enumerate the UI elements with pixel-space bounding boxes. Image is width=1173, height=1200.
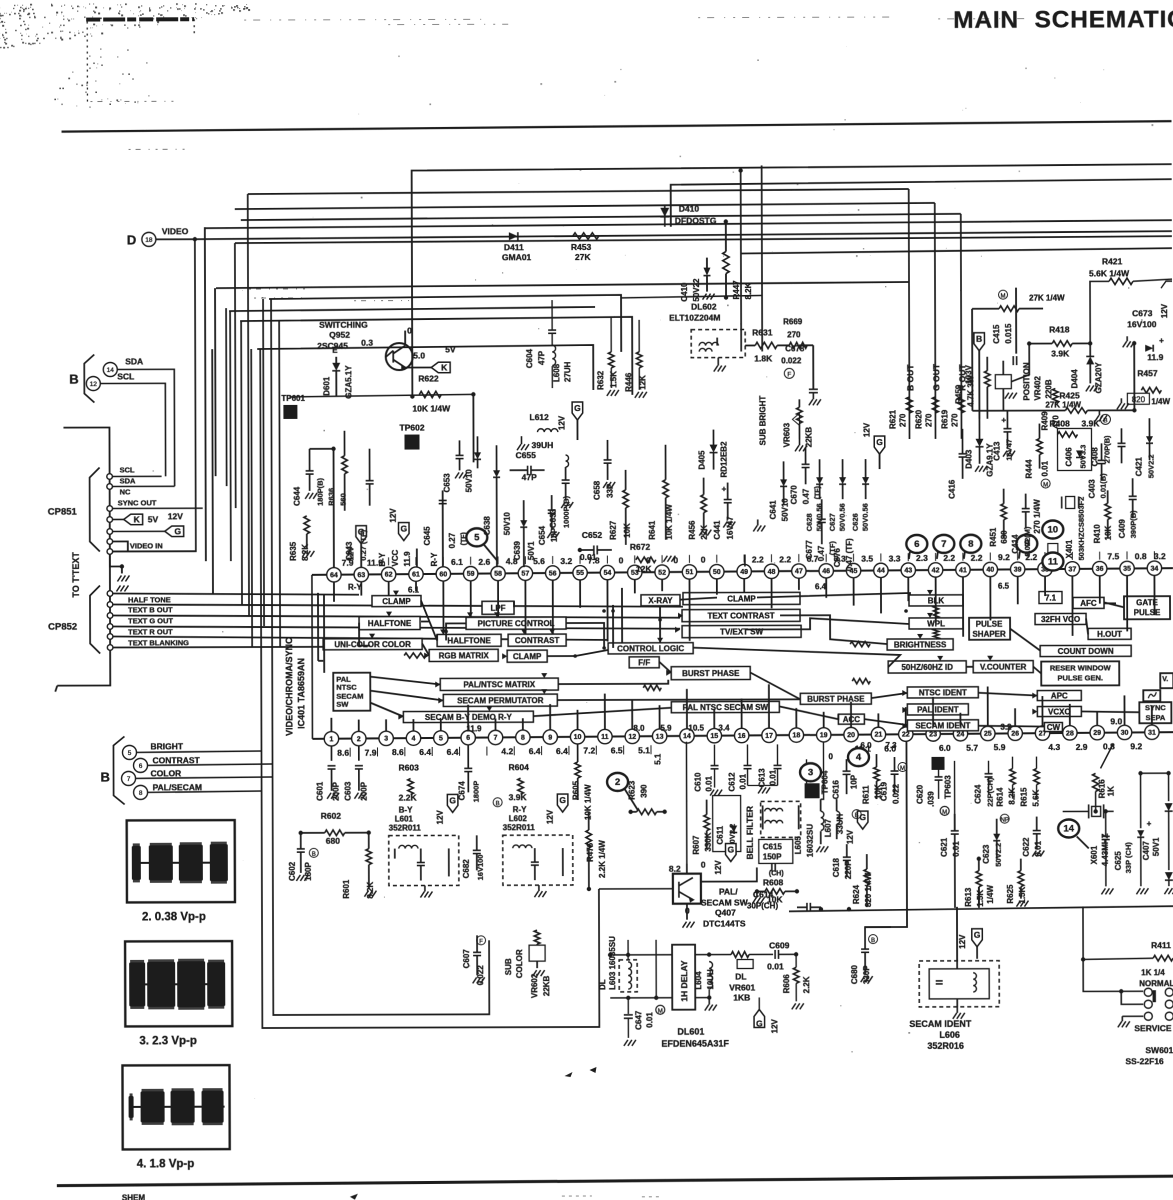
block SECAM B-Y DEMO R-Y [403,711,533,722]
pin 38 IC401 top [1038,562,1052,576]
svg-text:5.6K: 5.6K [1032,789,1041,806]
svg-text:8.2K: 8.2K [744,282,753,299]
block CONTROL LOGIC [608,643,693,654]
wire x1082 down [865,907,907,927]
svg-text:CLAMP: CLAMP [382,597,411,606]
svg-text:10UH: 10UH [706,969,715,990]
svg-text:22KB: 22KB [542,975,551,996]
svg-text:18: 18 [145,237,153,244]
svg-text:2.2K: 2.2K [399,793,418,803]
svg-text:C680: C680 [850,964,859,984]
flag 12V G mid [857,811,868,829]
capacitor C615 150P box [759,839,793,863]
svg-text:9.0: 9.0 [1110,716,1122,726]
svg-text:5.1: 5.1 [638,745,650,755]
svg-text:R622: R622 [418,373,439,383]
wire left vertical x280 [279,321,280,647]
svg-text:8.0: 8.0 [633,724,645,733]
svg-text:R625: R625 [1006,884,1015,904]
wire SCL [100,383,165,476]
svg-text:34: 34 [1150,566,1158,573]
svg-text:2.6: 2.6 [478,557,490,567]
svg-text:C407: C407 [1142,841,1151,861]
svg-text:2: 2 [615,777,620,788]
block AFC check [1104,602,1116,604]
pin CP852 HALF TONE [107,591,113,597]
capacitor C407 50V1 [1140,773,1142,828]
flag 12V G x578 [572,402,583,420]
svg-text:GZA5.1Y: GZA5.1Y [344,365,353,399]
resistor R631 1.8K [755,342,777,348]
svg-text:C638: C638 [483,516,492,536]
oscillogram 2 0.38 Vp-p [127,820,235,902]
pin CP852 TEXT B OUT [107,602,113,608]
svg-text:C644: C644 [293,486,302,506]
svg-text:19: 19 [820,732,828,739]
svg-text:R623: R623 [628,780,637,800]
svg-text:7: 7 [494,735,498,742]
svg-text:G: G [974,930,981,940]
pin 55 IC401 top [573,566,587,580]
svg-text:SECAM IDENT: SECAM IDENT [915,721,970,730]
svg-text:VR602: VR602 [530,973,539,998]
svg-text:R453: R453 [571,242,592,252]
svg-text:+: + [1001,416,1006,425]
wire bus y206 to G OUT corner [235,203,935,209]
pin 18 IC401 bottom [789,728,803,742]
svg-text:R411: R411 [1151,940,1171,950]
svg-text:C601: C601 [316,781,325,801]
svg-text:50V1: 50V1 [527,541,536,560]
block V.AM cut off at edge [1160,673,1173,688]
svg-text:R604: R604 [509,762,530,772]
svg-text:12V: 12V [436,810,445,825]
svg-text:TO T'TEXT: TO T'TEXT [71,552,81,598]
block 32FH VCO [1035,613,1086,624]
svg-text:5: 5 [128,750,132,757]
svg-text:C607: C607 [462,949,471,969]
wire TP604 stub [806,759,808,783]
svg-text:15: 15 [710,733,718,740]
svg-text:4.2: 4.2 [501,746,513,756]
svg-text:4.7K 3W: 4.7K 3W [966,375,975,407]
svg-text:52: 52 [658,570,666,577]
svg-text:6.1: 6.1 [408,586,420,595]
svg-text:L606: L606 [939,1030,960,1040]
svg-text:C645: C645 [423,526,432,546]
svg-text:NC: NC [120,487,131,496]
svg-text:DFDOSTG: DFDOSTG [675,216,717,226]
wire bus y310 [229,307,595,311]
flag B 103V [974,333,985,351]
svg-text:10K 1/4W: 10K 1/4W [665,504,674,540]
svg-text:SDA: SDA [120,476,136,485]
svg-text:13: 13 [656,734,664,741]
block V.COUNTER [973,661,1033,673]
svg-text:37: 37 [1068,566,1076,573]
svg-text:503KHZCS8503F2: 503KHZCS8503F2 [1077,497,1086,561]
svg-text:L605: L605 [794,836,803,855]
pin 30 IC401 bottom [1117,725,1131,739]
svg-text:352R016: 352R016 [927,1041,964,1051]
flag 12V G x880 [874,436,885,454]
svg-text:5.1: 5.1 [653,753,662,765]
svg-text:SCL: SCL [117,371,134,381]
svg-text:VCXO: VCXO [1048,707,1071,716]
pin 25 IC401 bottom [981,726,995,740]
svg-text:12V: 12V [557,415,566,430]
svg-text:2.2K: 2.2K [802,976,811,993]
svg-text:6.4: 6.4 [529,746,541,756]
svg-text:C641: C641 [769,500,778,520]
svg-text:SERVICE: SERVICE [1134,1023,1172,1033]
svg-text:270: 270 [950,413,959,427]
capacitor C601 200P [330,746,332,761]
svg-text:50V2.2: 50V2.2 [994,843,1003,867]
internal resistor r4 vertical [933,629,938,639]
svg-text:63: 63 [357,572,365,579]
wire vertical x742 down to DL602 [740,171,743,352]
svg-text:HALFTONE: HALFTONE [447,636,491,645]
pin CP851 spare [107,539,113,545]
svg-text:R672: R672 [630,542,651,552]
svg-text:0.01: 0.01 [705,775,714,791]
internal wire pin64 drop [323,595,325,673]
svg-text:R608: R608 [763,877,784,887]
callout 10 [1042,521,1063,539]
svg-text:2.9: 2.9 [1076,742,1088,752]
svg-text:C406: C406 [1065,447,1074,467]
internal wire count down [1010,629,1040,651]
svg-text:C620: C620 [916,784,925,804]
pin CP852 TEXT BLANKING [107,634,113,640]
svg-text:C610: C610 [694,772,703,792]
svg-text:R451: R451 [989,527,998,547]
svg-text:1/4W: 1/4W [986,885,995,904]
svg-text:2. 0.38 Vp-p: 2. 0.38 Vp-p [142,911,206,923]
svg-text:27K: 27K [575,252,591,262]
pin 49 IC401 top [737,564,751,578]
pin 56 IC401 top [545,566,559,580]
svg-text:0.47 (TF): 0.47 (TF) [845,538,854,571]
svg-text:APC: APC [1051,691,1068,700]
svg-text:0.01: 0.01 [767,961,784,971]
svg-text:680: 680 [1000,530,1009,544]
svg-text:C627: C627 [828,513,837,531]
svg-text:B: B [496,801,500,807]
svg-text:R631: R631 [752,327,773,337]
svg-text:6: 6 [914,539,919,550]
wire pin14 to Q407 [685,742,687,864]
svg-text:R444: R444 [1025,459,1034,479]
svg-text:10P: 10P [550,527,559,542]
pin 7 IC401 bottom [488,730,502,744]
svg-text:5.9: 5.9 [660,724,672,733]
internal resistor y688 [852,679,870,684]
pin 8 IC401 bottom [516,730,530,744]
svg-text:12V: 12V [862,422,871,437]
svg-text:1000P(B): 1000P(B) [562,495,571,528]
svg-text:51: 51 [686,569,694,576]
svg-text:27K 1/4W: 27K 1/4W [1029,293,1065,302]
svg-text:C416: C416 [948,479,957,499]
oscillogram 3 2.3 Vp-p [125,941,232,1026]
callout 9 pin39 [1016,535,1037,553]
ground shared C612 C613 [748,784,778,786]
svg-text:CONTRAST: CONTRAST [152,755,200,765]
svg-text:R636: R636 [327,488,336,506]
wire vr402 feed [1011,344,1029,382]
svg-text:CLAMP: CLAMP [513,652,542,661]
svg-text:56: 56 [549,570,557,577]
svg-text:12V: 12V [846,829,855,844]
flag 5V K [405,366,431,368]
svg-text:G: G [876,437,883,447]
pin CP852 last [107,645,113,651]
svg-text:B-Y: B-Y [378,552,387,566]
svg-text:C676: C676 [833,548,842,568]
svg-text:2: 2 [357,736,361,743]
svg-text:33P: 33P [606,483,615,498]
svg-text:G: G [400,524,407,534]
svg-text:HALFTONE: HALFTONE [368,619,412,628]
resistor R447 8.2K [725,222,727,252]
svg-text:R605: R605 [572,780,581,800]
pin 22 IC401 bottom [899,727,913,741]
internal resistor r2 [643,685,661,690]
svg-text:5.0: 5.0 [413,351,425,361]
svg-text:B: B [101,769,110,784]
svg-text:5: 5 [439,735,443,742]
wire bus y298 [269,295,621,353]
pin 52 IC401 top [655,565,669,579]
wire left vertical x206 [205,227,206,561]
wire bus y193 to B OUT corner [248,189,909,194]
svg-text:M: M [1001,294,1006,300]
svg-text:BURST PHASE: BURST PHASE [682,669,740,678]
svg-text:270: 270 [924,413,933,427]
scattered specks [124,45,1156,1105]
svg-text:330P: 330P [862,965,871,984]
svg-text:TP604: TP604 [821,770,830,794]
svg-text:ELT10Z204M: ELT10Z204M [669,313,720,323]
svg-text:PULSE: PULSE [976,620,1003,629]
svg-text:50: 50 [713,569,721,576]
svg-text:R-Y: R-Y [513,805,527,814]
svg-text:0.022: 0.022 [892,783,901,804]
svg-text:C602: C602 [288,861,297,881]
svg-text:C626: C626 [851,513,860,531]
svg-text:VIDEO IN: VIDEO IN [130,541,163,550]
pin 57 IC401 top [518,566,532,580]
svg-text:L612: L612 [529,412,549,422]
crystal X601 4.43MHZ [1063,810,1089,812]
svg-text:R602: R602 [321,811,342,821]
svg-text:0.8: 0.8 [1103,742,1115,752]
label (B) circle [493,798,502,807]
svg-text:25: 25 [984,731,992,738]
svg-text:57: 57 [521,571,529,578]
node L603 top [626,953,630,957]
pin CP851 12V flag G [107,529,113,535]
svg-text:C614: C614 [753,889,774,899]
flag 12V G pin63 [360,544,362,568]
svg-text:R456: R456 [688,520,697,540]
svg-text:L608: L608 [552,363,561,382]
pin 54 IC401 top [600,565,614,579]
svg-text:8: 8 [139,790,143,797]
pin 19 IC401 bottom [817,728,831,742]
svg-text:H.OUT: H.OUT [1097,630,1122,639]
svg-text:+: + [722,485,727,494]
pin 29 IC401 bottom [1090,725,1104,739]
pin 1 IC401 bottom [324,732,338,746]
block LPF [482,601,514,614]
svg-text:SW: SW [336,700,349,709]
wire bus y252 [741,248,1172,253]
pin 43 IC401 top [901,563,915,577]
block RESER WINDOW PULSE GEN [1041,661,1119,685]
svg-text:R409: R409 [1040,411,1049,431]
node dot [724,295,728,299]
svg-text:(TF): (TF) [815,486,822,499]
svg-text:DL601: DL601 [677,1027,704,1037]
svg-text:TP601: TP601 [281,394,305,403]
block H.OUT [1088,628,1131,639]
svg-text:10: 10 [1047,525,1058,536]
svg-text:C611: C611 [716,825,725,844]
svg-text:200P: 200P [360,781,369,800]
svg-text:C413: C413 [993,441,1002,461]
top value tick separators [1153,551,1155,559]
ground L604 [708,998,710,1005]
pin 16 IC401 bottom [734,728,748,742]
svg-text:29: 29 [1093,730,1101,737]
svg-text:G: G [449,795,456,805]
svg-text:F: F [787,371,791,378]
pin 14 IC401 bottom [680,729,694,743]
svg-text:B: B [976,334,982,344]
svg-text:C655: C655 [516,450,537,460]
block CLAMP [372,596,421,607]
block SECAM IDENT [907,720,978,731]
svg-text:D410: D410 [679,204,700,214]
svg-text:180P(B): 180P(B) [316,477,325,505]
svg-text:0.022: 0.022 [476,965,485,986]
svg-text:9.2: 9.2 [998,552,1010,562]
svg-text:V.: V. [1162,676,1168,683]
svg-text:39UH: 39UH [531,440,553,450]
svg-text:6.1: 6.1 [451,557,463,567]
callout 5 [466,528,487,546]
svg-text:10P: 10P [850,774,859,789]
pin 15 IC401 bottom [707,728,721,742]
svg-text:R446: R446 [624,372,633,392]
test point TP604 with callout 3 [800,763,821,781]
svg-text:16032SU: 16032SU [806,824,815,858]
svg-text:C403: C403 [1088,479,1097,499]
block PAL NTSC SECAM SW left [333,673,370,711]
svg-text:IC401 TA8659AN: IC401 TA8659AN [296,658,306,729]
oscillogram 4 1.8 Vp-p [122,1065,229,1149]
block BURST PHASE [800,693,871,704]
scan noise streak [86,17,194,21]
svg-text:5.9: 5.9 [994,742,1006,752]
svg-text:12V: 12V [958,934,967,949]
pin 63 IC401 top [354,567,368,581]
specks bottom mid [564,1067,596,1077]
pin 11 IC401 bottom [598,729,612,743]
svg-text:55: 55 [576,570,584,577]
svg-text:180P: 180P [304,862,313,881]
block COUNT DOWN [1040,645,1131,656]
svg-text:18: 18 [792,732,800,739]
svg-text:SUB: SUB [504,958,513,975]
wire C680 top [865,927,891,929]
svg-text:820 1/4W: 820 1/4W [864,872,873,907]
svg-text:200P: 200P [332,781,341,800]
flag 12V pin61 [398,523,409,541]
svg-text:270P(B): 270P(B) [1102,435,1111,463]
svg-text:M: M [942,810,947,816]
svg-text:SWITCHING: SWITCHING [319,320,368,330]
block integrator [1143,690,1160,701]
wire bus y227 [205,220,1172,228]
capacitor C647 0.01 (M) [627,998,629,1014]
pin CP851 VIDEO IN [107,549,113,555]
svg-text:C619: C619 [880,781,889,801]
pin 5 BRIGHT [122,745,136,759]
callout 8 pin41 [960,535,981,553]
svg-text:6.0: 6.0 [939,743,951,753]
svg-text:(CH): (CH) [769,870,784,877]
svg-text:C409: C409 [1118,519,1127,539]
svg-text:330K: 330K [704,832,713,851]
svg-text:+: + [1159,336,1164,345]
svg-text:1.8K: 1.8K [754,353,773,363]
block TV/EXT SW [682,625,801,637]
svg-text:RD12EB2: RD12EB2 [720,441,729,478]
diode right edge pair [1166,771,1170,775]
callout 2 [607,773,628,791]
wire SDA [117,369,174,486]
svg-text:PICTURE CONTROL: PICTURE CONTROL [478,619,555,628]
svg-text:8: 8 [968,539,973,550]
svg-text:G: G [174,526,181,536]
svg-text:10K 1/4W: 10K 1/4W [412,403,451,413]
pin 37 IC401 top [1065,562,1079,576]
svg-text:SYNC: SYNC [1145,703,1166,712]
pin 9 IC401 bottom [543,730,557,744]
svg-text:NTSC: NTSC [336,683,357,692]
svg-text:58: 58 [494,571,502,578]
svg-text:K: K [441,362,448,372]
svg-text:SECAM PERMUTATOR: SECAM PERMUTATOR [457,696,543,705]
svg-text:0.01(B): 0.01(B) [1099,473,1108,499]
svg-text:50V0.56: 50V0.56 [861,503,870,531]
svg-text:L604: L604 [694,971,703,990]
svg-text:560: 560 [339,493,348,506]
svg-text:X401: X401 [1065,539,1074,558]
svg-text:59: 59 [467,571,475,578]
svg-text:64: 64 [330,572,338,579]
pin 41 IC401 top [956,563,970,577]
svg-text:F/F: F/F [638,658,650,667]
svg-text:R421: R421 [1102,256,1123,266]
wire bus y287 [216,282,909,288]
svg-text:50V10: 50V10 [781,498,790,522]
svg-text:22: 22 [902,732,910,739]
